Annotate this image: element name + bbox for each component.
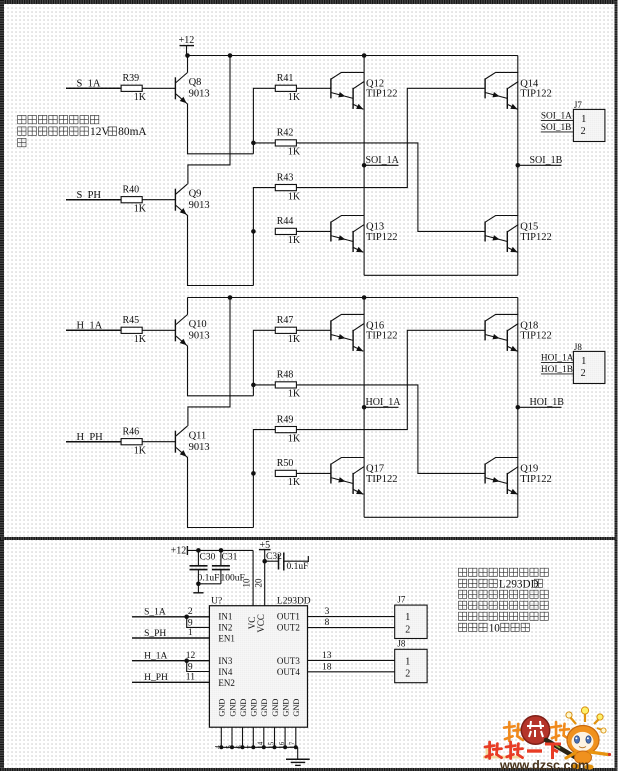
svg-text:9013: 9013: [189, 442, 210, 453]
svg-text:U?: U?: [211, 596, 222, 606]
svg-text:IN2: IN2: [218, 623, 232, 633]
svg-text:GND: GND: [271, 699, 280, 717]
svg-text:1: 1: [581, 114, 586, 125]
svg-text:Q11: Q11: [189, 430, 207, 441]
svg-text:2: 2: [581, 126, 586, 137]
svg-text:20: 20: [254, 578, 264, 588]
svg-text:2: 2: [405, 624, 410, 635]
svg-text:GND: GND: [281, 699, 290, 717]
svg-text:13: 13: [322, 651, 332, 661]
svg-text:HOI_1A: HOI_1A: [366, 397, 402, 408]
svg-text:HOI_1A: HOI_1A: [541, 353, 574, 363]
svg-text:1K: 1K: [288, 334, 301, 345]
svg-text:TIP122: TIP122: [520, 232, 552, 243]
svg-text:R43: R43: [277, 172, 294, 183]
svg-text:L293DD: L293DD: [499, 578, 539, 590]
svg-text:IN4: IN4: [218, 667, 232, 677]
svg-text:J8: J8: [397, 639, 406, 649]
svg-text:10: 10: [489, 622, 501, 634]
svg-text:SOI_1B: SOI_1B: [541, 123, 571, 133]
svg-text:GND: GND: [228, 699, 237, 717]
svg-text:9013: 9013: [189, 200, 210, 211]
svg-text:R49: R49: [277, 414, 294, 425]
svg-text:1K: 1K: [288, 389, 301, 400]
svg-text:SOI_1A: SOI_1A: [541, 111, 572, 121]
svg-text:TIP122: TIP122: [366, 89, 398, 100]
svg-text:9: 9: [188, 662, 193, 672]
svg-text:3: 3: [325, 607, 330, 617]
svg-text:R45: R45: [123, 315, 140, 326]
svg-text:R46: R46: [123, 426, 140, 437]
svg-text:12V: 12V: [90, 126, 110, 138]
svg-text:TIP122: TIP122: [366, 331, 398, 342]
svg-text:OUT1: OUT1: [277, 611, 300, 621]
svg-text:R48: R48: [277, 370, 294, 381]
svg-text:1K: 1K: [288, 477, 301, 488]
svg-text:www.dzsc.com: www.dzsc.com: [499, 759, 589, 773]
svg-text:Q9: Q9: [189, 188, 202, 199]
svg-text:1: 1: [405, 656, 410, 667]
svg-text:GND: GND: [239, 699, 248, 717]
svg-text:TIP122: TIP122: [520, 89, 552, 100]
svg-text:EN1: EN1: [218, 634, 235, 644]
svg-text:TIP122: TIP122: [520, 474, 552, 485]
svg-text:OUT4: OUT4: [277, 667, 300, 677]
svg-text:Q10: Q10: [189, 319, 207, 330]
svg-text:Q8: Q8: [189, 77, 202, 88]
svg-text:OUT3: OUT3: [277, 656, 300, 666]
svg-text:9013: 9013: [189, 89, 210, 100]
svg-text:1K: 1K: [288, 235, 301, 246]
svg-text:GND: GND: [250, 699, 259, 717]
svg-text:1K: 1K: [134, 334, 147, 345]
svg-text:R50: R50: [277, 458, 294, 469]
svg-text:2: 2: [405, 669, 410, 680]
svg-text:SOI_1B: SOI_1B: [530, 155, 563, 166]
svg-text:HOI_1B: HOI_1B: [541, 365, 573, 375]
svg-text:J7: J7: [397, 595, 406, 605]
svg-text:GND: GND: [260, 699, 269, 717]
svg-text:1K: 1K: [288, 191, 301, 202]
svg-text:TIP122: TIP122: [366, 474, 398, 485]
svg-text:R40: R40: [123, 184, 140, 195]
svg-text:TIP122: TIP122: [366, 232, 398, 243]
svg-text:0.1uF: 0.1uF: [198, 573, 220, 583]
svg-text:TIP122: TIP122: [520, 331, 552, 342]
svg-text:2: 2: [581, 368, 586, 379]
svg-text:C30: C30: [200, 553, 216, 563]
svg-text:IN3: IN3: [218, 656, 232, 666]
svg-text:11: 11: [186, 673, 195, 683]
svg-text:GND: GND: [292, 699, 301, 717]
svg-text:HOI_1B: HOI_1B: [530, 397, 565, 408]
svg-text:R42: R42: [277, 128, 294, 139]
svg-text:R47: R47: [277, 315, 294, 326]
svg-text:+12: +12: [171, 546, 187, 557]
svg-text:+12: +12: [179, 35, 195, 46]
svg-text:R39: R39: [123, 73, 140, 84]
svg-text:IN1: IN1: [218, 611, 232, 621]
svg-text:80mA: 80mA: [118, 126, 147, 138]
svg-text:1: 1: [581, 356, 586, 367]
svg-text:J8: J8: [574, 342, 583, 352]
svg-text:4: 4: [214, 745, 222, 749]
svg-text:1K: 1K: [288, 92, 301, 103]
svg-text:1K: 1K: [288, 433, 301, 444]
svg-text:1K: 1K: [134, 203, 147, 214]
svg-text:GND: GND: [218, 699, 227, 717]
svg-text:1: 1: [188, 628, 193, 638]
svg-text:VCC: VCC: [256, 614, 266, 633]
svg-text:L293DD: L293DD: [277, 596, 311, 606]
svg-text:1K: 1K: [134, 92, 147, 103]
svg-text:C31: C31: [222, 553, 238, 563]
svg-text:OUT2: OUT2: [277, 623, 300, 633]
svg-text:SOI_1A: SOI_1A: [366, 155, 400, 166]
svg-text:0.1uF: 0.1uF: [287, 562, 309, 572]
svg-text:9013: 9013: [189, 331, 210, 342]
svg-text:R41: R41: [277, 73, 294, 84]
svg-text:100uF: 100uF: [221, 573, 245, 583]
svg-text:1K: 1K: [134, 445, 147, 456]
svg-text:18: 18: [322, 662, 332, 672]
svg-text:J7: J7: [574, 100, 583, 110]
svg-text:1K: 1K: [288, 147, 301, 158]
svg-text:EN2: EN2: [218, 678, 235, 688]
svg-text:R44: R44: [277, 216, 294, 227]
svg-text:8: 8: [325, 618, 330, 628]
svg-text:1: 1: [405, 612, 410, 623]
svg-text:C32: C32: [266, 552, 282, 562]
